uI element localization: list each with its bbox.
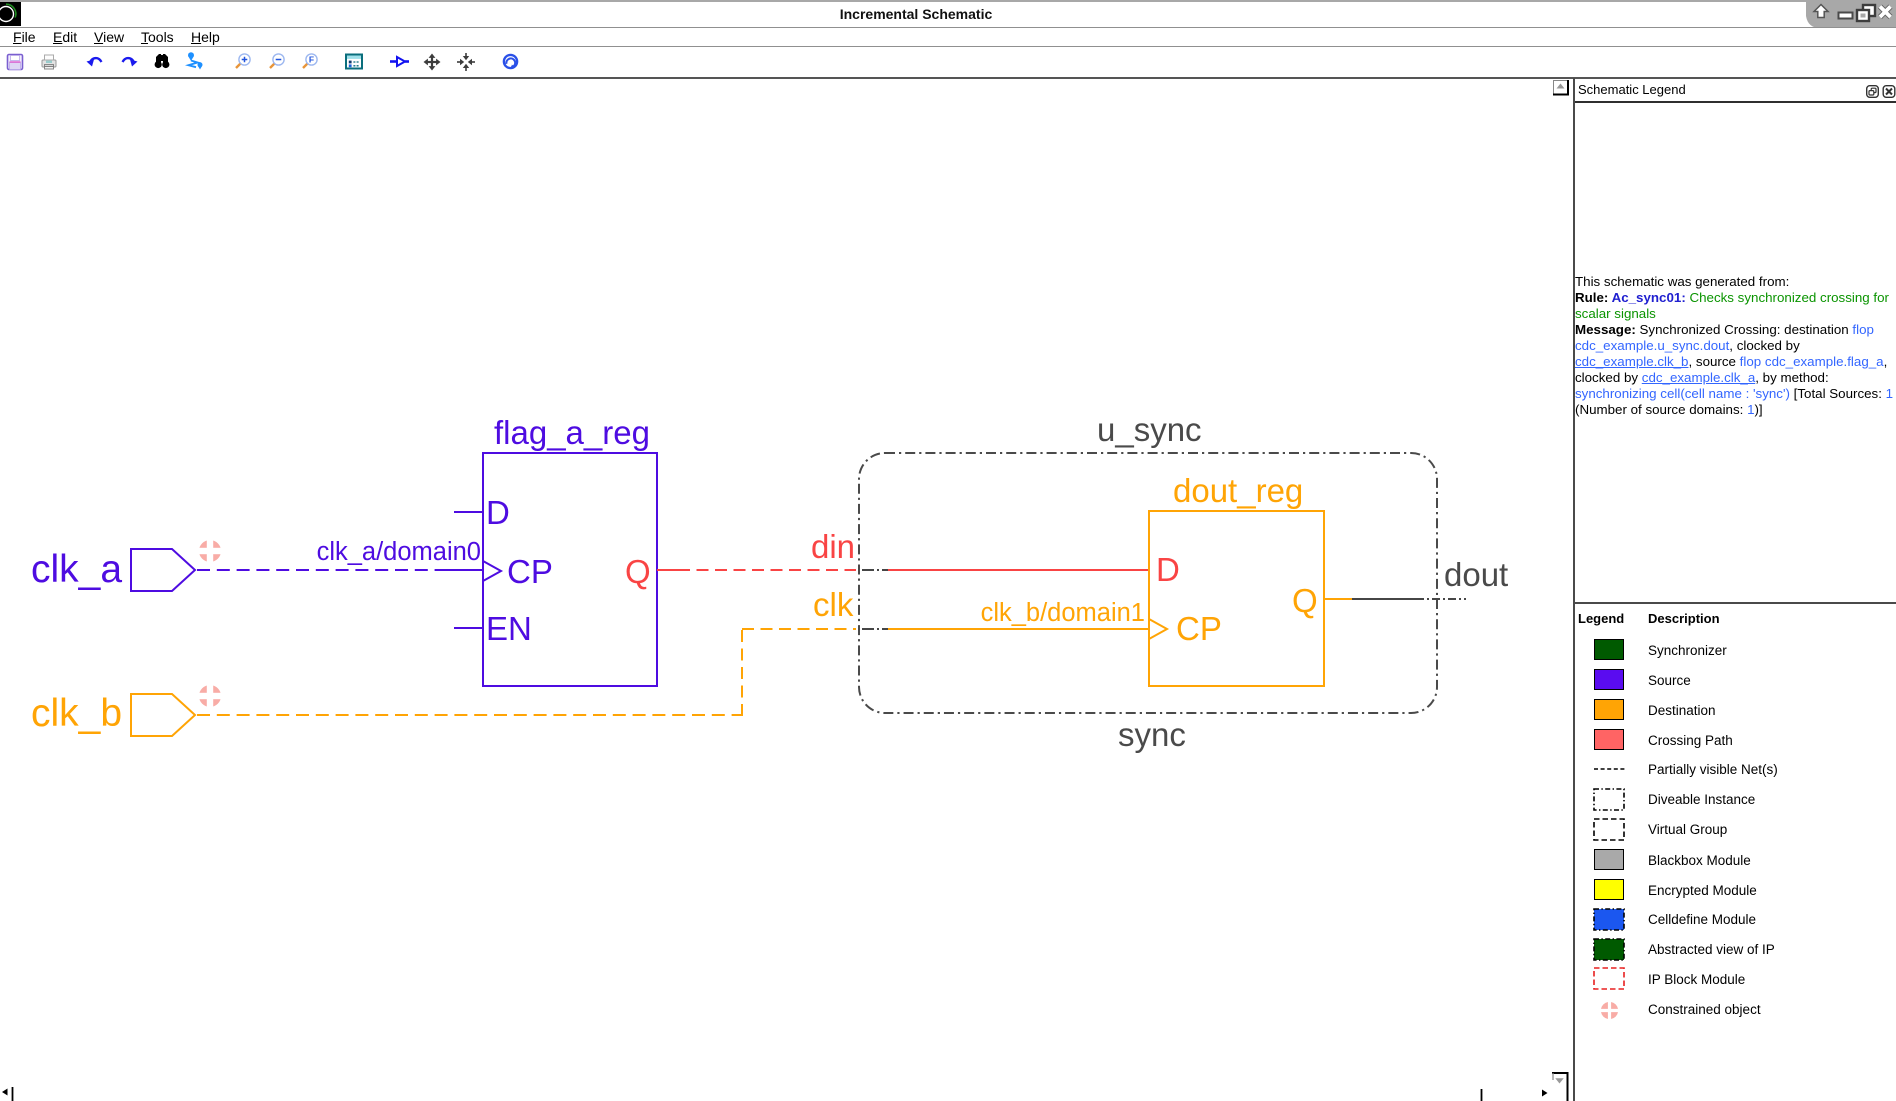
pin D of flag_a_reg (454, 494, 510, 531)
restore (1863, 5, 1875, 16)
pin CP of flag_a_reg (483, 553, 553, 590)
redo icon (123, 58, 138, 66)
title bar (0, 2, 1896, 27)
svg-text:clk_b/domain1: clk_b/domain1 (981, 599, 1145, 627)
route/pin icon (188, 52, 203, 69)
legend row IP Block Module (1593, 967, 1625, 990)
undo icon (87, 58, 102, 66)
svg-text:din: din (811, 528, 855, 565)
svg-text:CP: CP (1176, 610, 1222, 647)
menu/toolbar separator (0, 46, 1896, 47)
svg-text:F: F (309, 55, 314, 65)
flip-flop dout_reg instance box (1149, 472, 1324, 686)
wire clk_a/domain0 (197, 538, 483, 570)
svg-text:clk_a: clk_a (31, 548, 122, 591)
svg-text:clk_a/domain0: clk_a/domain0 (317, 538, 481, 566)
legend table header (1578, 611, 1624, 626)
svg-text:CP: CP (507, 553, 553, 590)
scrollbar down arrow (1552, 1072, 1569, 1101)
horizontal scrollbar right end (1482, 1089, 1548, 1101)
schematic canvas (0, 79, 1573, 1101)
svg-text:dout_reg: dout_reg (1173, 472, 1303, 509)
print icon (42, 55, 56, 69)
svg-text:Q: Q (625, 553, 651, 590)
svg-text:dout: dout (1444, 556, 1508, 593)
svg-text:u_sync: u_sync (1097, 411, 1202, 448)
properties panel icon (346, 55, 362, 69)
legend row Synchronizer (1594, 639, 1624, 660)
legend row Partially visible Nets (1594, 763, 1626, 775)
legend row Virtual Group (1593, 818, 1625, 841)
minimize (1839, 13, 1853, 19)
input port clk_b (31, 692, 195, 736)
legend row Diveable Instance (1593, 788, 1625, 811)
svg-text:flag_a_reg: flag_a_reg (494, 414, 650, 451)
pin EN of flag_a_reg (454, 610, 532, 647)
wire din crossing path (red) (657, 528, 1149, 570)
window controls tab (1800, 0, 1896, 28)
constrained object marker on clk_b (197, 683, 224, 710)
panel titlebar buttons (1866, 85, 1896, 99)
collapse arrows icon (457, 53, 475, 71)
close X (1880, 7, 1891, 18)
flip-flop flag_a_reg instance box (483, 414, 657, 686)
probe icon (390, 57, 409, 66)
legend row Abstracted view of IP (1593, 938, 1625, 961)
svg-text:D: D (1156, 551, 1180, 588)
legend section divider (1575, 602, 1896, 604)
hierarchical group u_sync boundary (859, 411, 1437, 753)
input port clk_a (31, 548, 195, 591)
toolbar icons placeholder (0, 47, 540, 77)
horizontal scrollbar left end (2, 1087, 13, 1101)
find binoculars icon (155, 54, 170, 68)
pin CP of dout_reg (1149, 610, 1222, 647)
svg-text:clk_b: clk_b (31, 692, 122, 735)
panel titlebar bottom border (1575, 101, 1896, 103)
legend row Constrained object (1600, 1001, 1619, 1020)
legend row Source (1594, 669, 1624, 690)
constrained object marker on clk_a (197, 538, 224, 565)
menu items (13, 29, 36, 45)
wire dout (1324, 556, 1508, 599)
zoom in icon (236, 54, 250, 68)
expand arrows icon (424, 54, 441, 71)
legend row Crossing Path (1594, 729, 1624, 750)
legend row Blackbox Module (1594, 849, 1624, 870)
rule message text (1575, 274, 1896, 418)
legend row Encrypted Module (1594, 879, 1624, 900)
scrollbar up arrow (1553, 80, 1568, 95)
menubar separator (0, 27, 1896, 28)
svg-text:Q: Q (1292, 582, 1318, 619)
svg-text:D: D (486, 494, 510, 531)
legend row Destination (1594, 699, 1624, 720)
save icon (8, 55, 23, 70)
svg-text:sync: sync (1118, 716, 1186, 753)
app logo (0, 2, 21, 26)
zoom out icon (270, 54, 284, 68)
zoom fit icon (303, 54, 317, 68)
svg-text:clk: clk (813, 586, 854, 623)
toolbar bottom separator (0, 77, 1896, 79)
top window border (0, 0, 1896, 2)
window title (0, 6, 1832, 22)
panel left border (1573, 78, 1575, 1101)
wire clk_b/domain1 (orange clock net) (197, 599, 1149, 716)
reload icon (504, 55, 517, 69)
shade/up button (1814, 5, 1828, 18)
legend row Celldefine Module (1593, 908, 1625, 931)
svg-text:EN: EN (486, 610, 532, 647)
